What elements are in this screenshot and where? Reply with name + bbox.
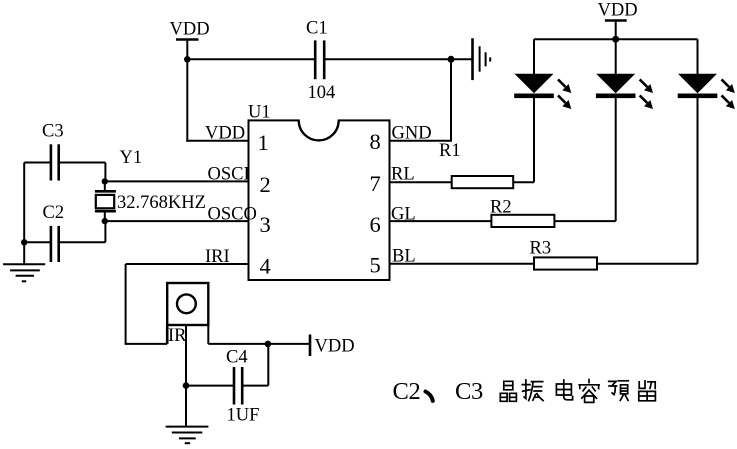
svg-text:VDD: VDD	[205, 124, 245, 144]
svg-text:3: 3	[260, 212, 271, 237]
svg-text:R1: R1	[439, 141, 461, 161]
svg-text:C3: C3	[42, 122, 64, 142]
svg-text:C: C	[455, 378, 471, 405]
svg-text:1: 1	[258, 130, 269, 155]
svg-text:104: 104	[308, 83, 336, 103]
svg-text:VDD: VDD	[598, 1, 638, 21]
svg-text:VDD: VDD	[170, 20, 210, 40]
svg-text:2: 2	[409, 378, 421, 405]
svg-text:8: 8	[370, 129, 381, 154]
svg-text:3: 3	[471, 378, 483, 405]
svg-text:6: 6	[370, 212, 381, 237]
svg-text:C2: C2	[43, 203, 65, 223]
svg-text:5: 5	[370, 253, 381, 278]
svg-text:U1: U1	[248, 103, 271, 123]
svg-text:1UF: 1UF	[227, 406, 260, 426]
svg-text:C1: C1	[306, 19, 328, 39]
svg-text:2: 2	[260, 172, 271, 197]
svg-text:C4: C4	[226, 348, 248, 368]
svg-text:32.768KHZ: 32.768KHZ	[117, 193, 206, 213]
svg-text:4: 4	[260, 254, 271, 279]
svg-text:IR: IR	[168, 326, 187, 346]
svg-text:Y1: Y1	[120, 148, 143, 168]
svg-text:GND: GND	[392, 124, 432, 144]
svg-text:R3: R3	[530, 239, 552, 259]
svg-text:C: C	[393, 378, 409, 405]
svg-text:7: 7	[370, 171, 381, 196]
svg-text:VDD: VDD	[315, 337, 355, 357]
